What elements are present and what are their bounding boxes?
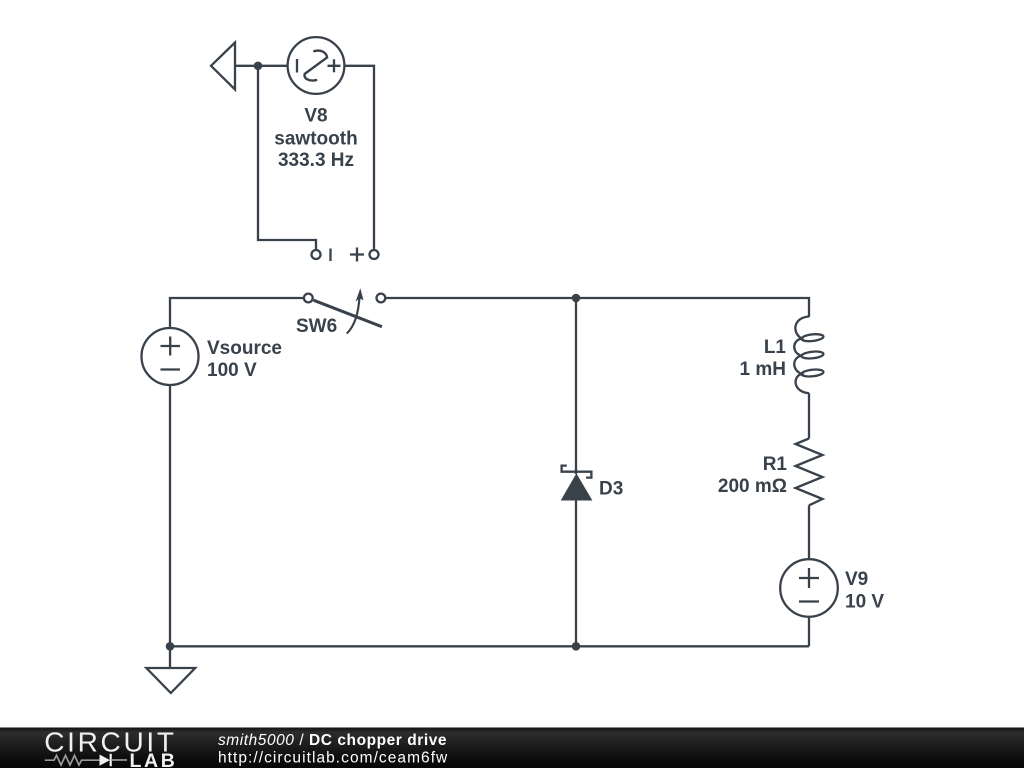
svg-text:smith5000 / DC chopper drive: smith5000 / DC chopper drive (218, 732, 447, 749)
wire D3 bottom (575, 500, 577, 646)
junction node D3 top (572, 294, 581, 303)
wire V9 bottom to rail (808, 618, 810, 646)
svg-text:V8: V8 (304, 106, 327, 127)
Vsource plus marker (161, 337, 181, 356)
diode D3 (Schottky) cathode bar with hooks (562, 466, 592, 478)
svg-text:LAB: LAB (130, 750, 178, 768)
V8 terminal pin (plus) (370, 250, 379, 259)
V8 terminal pin (minus) (312, 250, 321, 259)
voltage source V8 circle (288, 37, 345, 94)
svg-text:200 mΩ: 200 mΩ (718, 476, 787, 497)
V9 minus marker (799, 600, 819, 602)
wire V8 left node down to behavioral terminals (258, 66, 316, 250)
inductor L1 loop 1 (801, 333, 824, 342)
switch SW6 right terminal (377, 294, 386, 303)
wire D3 top (575, 298, 577, 474)
resistor R1 zigzag (796, 439, 823, 506)
junction node top-left of V8 (254, 62, 263, 71)
svg-text:SW6: SW6 (296, 316, 337, 337)
voltage source V9 circle (780, 559, 838, 617)
junction node ground (166, 642, 175, 651)
wire L1 to R1 (808, 393, 810, 438)
svg-text:10 V: 10 V (845, 592, 884, 613)
svg-text:1 mH: 1 mH (740, 359, 786, 380)
net flag input triangle (211, 43, 235, 90)
svg-text:Vsource: Vsource (207, 338, 282, 359)
V9 plus marker (799, 568, 819, 588)
inductor L1 coil bumps (794, 317, 809, 394)
wire V8 right side down (345, 66, 374, 250)
junction node D3 bottom (572, 642, 581, 651)
wire R1 to V9 (808, 505, 810, 558)
switch SW6 blade (314, 300, 382, 327)
ground stub (169, 646, 171, 668)
switch SW6 left terminal (304, 294, 313, 303)
diode D3 triangle (561, 473, 593, 500)
V8 plus pin marker (inside circle) (328, 59, 341, 72)
wire Vsource bottom to ground rail (169, 386, 171, 646)
V8 terminal plus marker (350, 248, 364, 262)
Vsource minus marker (161, 368, 181, 370)
inductor L1 loop 3 (801, 369, 824, 378)
wire Vsource top to switch (170, 298, 304, 327)
wire bottom rail (170, 645, 809, 647)
wire switch to top-right corner (385, 298, 809, 317)
svg-text:L1: L1 (764, 337, 787, 358)
ground symbol (146, 668, 195, 693)
V8 terminal minus marker (329, 249, 331, 262)
svg-text:V9: V9 (845, 569, 868, 590)
logo diode (100, 755, 111, 766)
switch SW6 actuation arrow (347, 295, 360, 334)
V8 sawtooth waveform glyph (305, 51, 328, 81)
svg-text:http://circuitlab.com/ceam6fw: http://circuitlab.com/ceam6fw (218, 750, 448, 767)
V8 minus pin marker (inside circle) (296, 59, 298, 73)
wire triangle to V8 (235, 65, 287, 67)
svg-text:333.3 Hz: 333.3 Hz (278, 150, 354, 171)
inductor L1 loop 2 (801, 351, 824, 360)
svg-text:D3: D3 (599, 479, 623, 500)
logo resistor zigzag (45, 755, 100, 765)
svg-text:sawtooth: sawtooth (274, 129, 357, 150)
svg-text:100 V: 100 V (207, 360, 257, 381)
voltage source Vsource circle (142, 328, 199, 385)
svg-text:R1: R1 (763, 454, 788, 475)
